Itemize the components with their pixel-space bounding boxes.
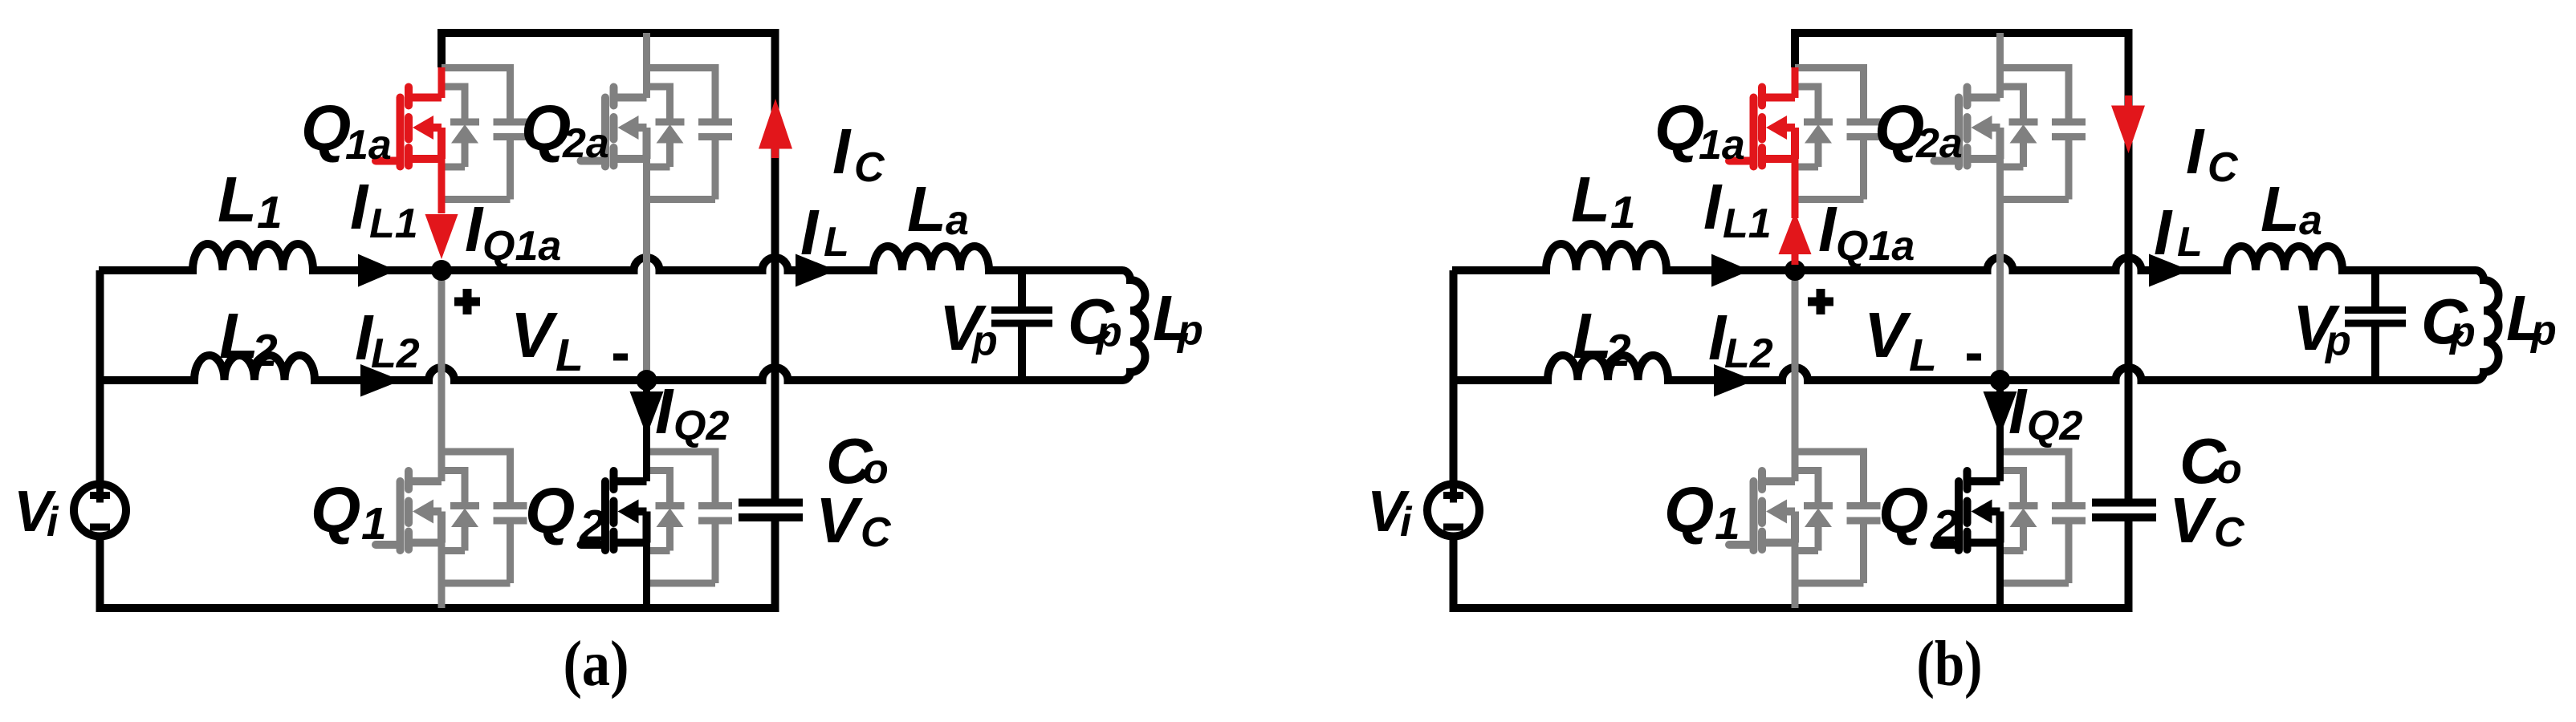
svg-text:(b): (b)	[1917, 629, 1983, 700]
svg-text:(a): (a)	[564, 629, 629, 700]
